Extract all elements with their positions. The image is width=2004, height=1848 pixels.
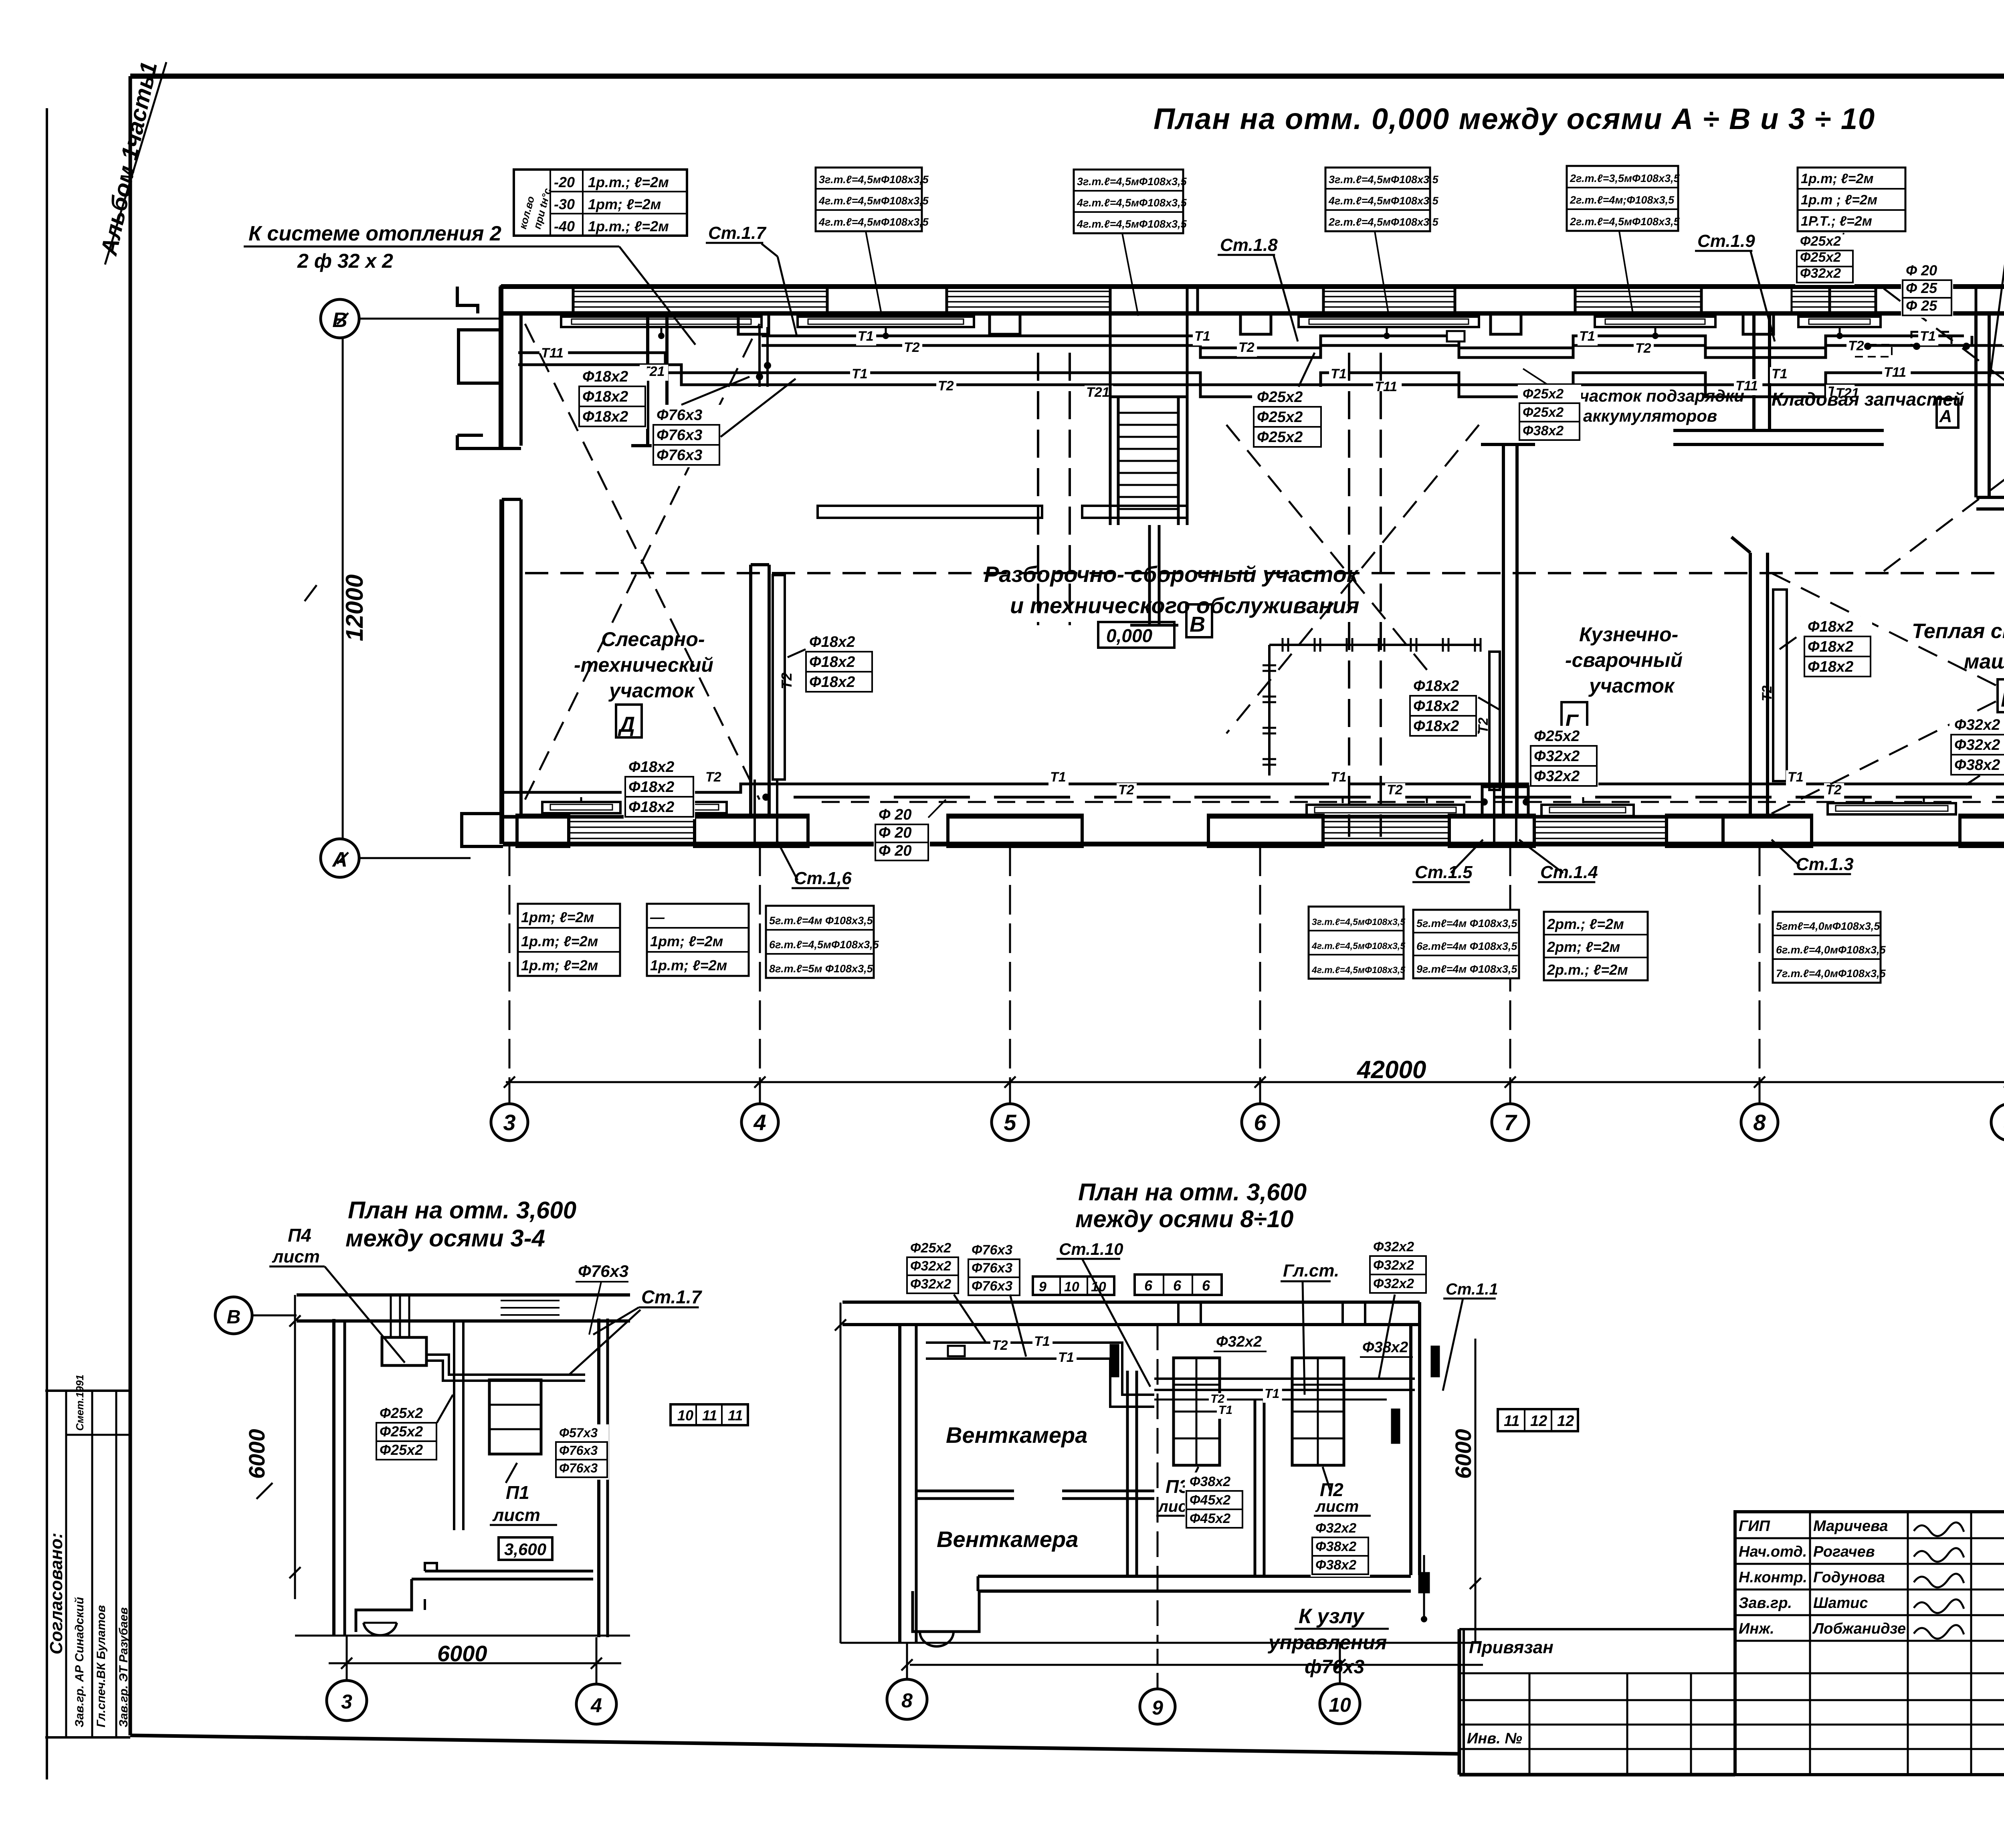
svg-text:Ст.1.7: Ст.1.7 — [641, 1287, 703, 1307]
svg-text:Т1: Т1 — [1218, 1404, 1232, 1417]
svg-text:Ф18x2: Ф18x2 — [582, 388, 628, 405]
svg-text:Кузнечно-: Кузнечно- — [1579, 623, 1678, 646]
svg-text:3г.т.ℓ=4,5мФ108x3,5: 3г.т.ℓ=4,5мФ108x3,5 — [1312, 917, 1406, 927]
svg-text:Ф76x3: Ф76x3 — [972, 1278, 1012, 1294]
svg-text:Т1: Т1 — [1265, 1386, 1279, 1401]
svg-text:5гтℓ=4,0мФ108x3,5: 5гтℓ=4,0мФ108x3,5 — [1776, 920, 1880, 932]
svg-text:Т11: Т11 — [541, 345, 564, 361]
svg-text:Т11: Т11 — [1375, 379, 1397, 394]
svg-text:Д: Д — [618, 713, 635, 737]
svg-text:6: 6 — [1254, 1110, 1267, 1135]
svg-text:2рт; ℓ=2м: 2рт; ℓ=2м — [1547, 939, 1620, 955]
svg-text:2г.т.ℓ=4м;Ф108x3,5: 2г.т.ℓ=4м;Ф108x3,5 — [1570, 194, 1675, 206]
svg-text:Ст.1,6: Ст.1,6 — [794, 868, 852, 888]
svg-text:2г.т.ℓ=4,5мФ108x3,5: 2г.т.ℓ=4,5мФ108x3,5 — [1570, 216, 1680, 228]
svg-text:1р.т; ℓ=2м: 1р.т; ℓ=2м — [1801, 171, 1874, 186]
svg-text:4: 4 — [753, 1110, 766, 1135]
svg-text:Ф25x2: Ф25x2 — [1257, 409, 1303, 426]
svg-text:Годунова: Годунова — [1813, 1569, 1885, 1586]
svg-text:Ф76x3: Ф76x3 — [559, 1461, 598, 1475]
svg-text:Ф 20: Ф 20 — [879, 824, 912, 841]
svg-text:1рт; ℓ=2м: 1рт; ℓ=2м — [588, 196, 661, 212]
svg-text:Зав.гр. ЭТ Разубаев: Зав.гр. ЭТ Разубаев — [117, 1607, 130, 1727]
svg-text:Т1: Т1 — [1194, 329, 1210, 344]
svg-text:3г.т.ℓ=4,5мФ108x3,5: 3г.т.ℓ=4,5мФ108x3,5 — [819, 174, 929, 186]
svg-text:Привязан: Привязан — [1469, 1638, 1554, 1657]
svg-text:Ф18x2: Ф18x2 — [1808, 618, 1853, 635]
svg-text:6000: 6000 — [437, 1641, 487, 1666]
svg-text:В: В — [1190, 612, 1205, 636]
svg-text:1Р.Т.; ℓ=2м: 1Р.Т.; ℓ=2м — [1801, 214, 1872, 229]
svg-text:Т11: Т11 — [1884, 365, 1906, 380]
svg-text:6000: 6000 — [244, 1429, 269, 1479]
svg-text:Ф32x2: Ф32x2 — [1315, 1521, 1356, 1536]
svg-text:П2: П2 — [1320, 1479, 1343, 1500]
svg-text:Ф 25: Ф 25 — [1906, 280, 1937, 296]
svg-text:между осями 3-4: между осями 3-4 — [345, 1225, 545, 1252]
svg-text:План на отм. 3,600: План на отм. 3,600 — [1078, 1179, 1307, 1206]
svg-text:Нач.отд.: Нач.отд. — [1739, 1543, 1807, 1560]
svg-text:5: 5 — [1004, 1110, 1016, 1135]
svg-text:Т2: Т2 — [1118, 782, 1134, 798]
svg-text:Ф25x2: Ф25x2 — [1523, 405, 1564, 420]
svg-text:9г.тℓ=4м Ф108x3,5: 9г.тℓ=4м Ф108x3,5 — [1416, 963, 1517, 975]
svg-text:Т1: Т1 — [1579, 329, 1595, 344]
svg-text:машин: машин — [1964, 650, 2004, 673]
svg-text:между осями 8÷10: между осями 8÷10 — [1075, 1206, 1293, 1232]
svg-text:Т2: Т2 — [1635, 341, 1651, 356]
svg-text:Ф38x2: Ф38x2 — [1362, 1339, 1408, 1356]
svg-text:4г.т.ℓ=4,5мФ108x3,5: 4г.т.ℓ=4,5мФ108x3,5 — [1311, 941, 1406, 951]
svg-text:План на отм. 3,600: План на отм. 3,600 — [348, 1197, 576, 1224]
svg-text:Ф25x2: Ф25x2 — [1523, 386, 1564, 402]
svg-text:11: 11 — [728, 1407, 743, 1424]
svg-text:В: В — [2001, 687, 2004, 711]
svg-text:Т2: Т2 — [1238, 340, 1255, 355]
svg-text:Ф18x2: Ф18x2 — [628, 779, 674, 796]
svg-text:4г.т.ℓ=4,5мФ108x3,5: 4г.т.ℓ=4,5мФ108x3,5 — [1328, 195, 1439, 207]
svg-text:1рт; ℓ=2м: 1рт; ℓ=2м — [650, 933, 723, 949]
svg-text:10: 10 — [1091, 1279, 1106, 1295]
svg-text:Ф32x2: Ф32x2 — [1216, 1333, 1262, 1350]
svg-text:-20: -20 — [554, 174, 575, 190]
svg-text:Ф57x3: Ф57x3 — [559, 1426, 598, 1440]
svg-text:Ф76x3: Ф76x3 — [657, 427, 702, 444]
svg-text:П4: П4 — [288, 1225, 311, 1246]
svg-text:Ф 25: Ф 25 — [1906, 297, 1937, 314]
svg-text:Ф18x2: Ф18x2 — [628, 759, 674, 776]
svg-text:лист: лист — [492, 1505, 540, 1525]
svg-text:Теплая стоянка: Теплая стоянка — [1912, 620, 2004, 643]
svg-text:П1: П1 — [506, 1482, 529, 1503]
svg-text:Ф25x2: Ф25x2 — [1534, 728, 1580, 745]
svg-text:Т2: Т2 — [1848, 338, 1864, 353]
svg-text:Ф76x3: Ф76x3 — [657, 447, 702, 464]
svg-text:ф76x3: ф76x3 — [1305, 1656, 1365, 1678]
svg-text:Зав.гр.: Зав.гр. — [1739, 1595, 1792, 1612]
svg-text:Ф25x2: Ф25x2 — [1257, 389, 1303, 406]
svg-text:3,600: 3,600 — [504, 1540, 546, 1559]
svg-text:Т1: Т1 — [1331, 769, 1347, 785]
svg-text:Ст.1.5: Ст.1.5 — [1415, 862, 1473, 882]
svg-text:Т2: Т2 — [1760, 685, 1775, 701]
svg-text:Ст.1.4: Ст.1.4 — [1540, 862, 1598, 882]
svg-text:Гл.ст.: Гл.ст. — [1283, 1261, 1339, 1280]
svg-text:Ф25x2: Ф25x2 — [910, 1240, 951, 1256]
svg-text:Ф76x3: Ф76x3 — [578, 1262, 628, 1280]
svg-text:Т2: Т2 — [992, 1338, 1008, 1353]
svg-text:Ф18x2: Ф18x2 — [1808, 658, 1853, 675]
svg-text:Т1: Т1 — [1034, 1334, 1050, 1349]
svg-text:Ф76x3: Ф76x3 — [972, 1242, 1012, 1258]
svg-text:Т2: Т2 — [938, 378, 954, 394]
svg-text:10: 10 — [677, 1407, 693, 1424]
svg-text:Ф25x2: Ф25x2 — [1800, 250, 1841, 265]
svg-text:Венткамера: Венткамера — [937, 1527, 1078, 1552]
svg-text:4: 4 — [590, 1694, 602, 1717]
svg-text:Ф18x2: Ф18x2 — [582, 408, 628, 425]
svg-text:Маричева: Маричева — [1813, 1518, 1888, 1535]
svg-text:1р.т.; ℓ=2м: 1р.т.; ℓ=2м — [588, 174, 669, 190]
svg-text:Ф25x2: Ф25x2 — [1257, 429, 1303, 446]
svg-text:-технический: -технический — [574, 654, 713, 676]
svg-text:10: 10 — [1329, 1694, 1351, 1716]
svg-text:Ст.1.1: Ст.1.1 — [1446, 1280, 1498, 1298]
svg-text:7г.т.ℓ=4,0мФ108x3,5: 7г.т.ℓ=4,0мФ108x3,5 — [1776, 967, 1886, 980]
svg-text:9: 9 — [1039, 1279, 1046, 1295]
svg-text:Т21: Т21 — [1086, 385, 1110, 400]
svg-text:Ф18x2: Ф18x2 — [809, 674, 855, 691]
svg-text:4г.т.ℓ=4,5мФ108x3,5: 4г.т.ℓ=4,5мФ108x3,5 — [1311, 965, 1406, 975]
svg-text:2г.т.ℓ=3,5мФ108x3,5: 2г.т.ℓ=3,5мФ108x3,5 — [1570, 172, 1680, 184]
svg-text:12: 12 — [1530, 1413, 1547, 1430]
svg-text:Т2: Т2 — [1387, 782, 1403, 798]
svg-text:Т2: Т2 — [705, 769, 721, 785]
svg-text:Ф25x2: Ф25x2 — [380, 1442, 423, 1458]
svg-text:Ф32x2: Ф32x2 — [1373, 1258, 1414, 1273]
svg-text:42000: 42000 — [1356, 1056, 1426, 1084]
svg-text:участок: участок — [1588, 675, 1675, 697]
svg-text:3: 3 — [503, 1110, 515, 1135]
svg-text:Н.контр.: Н.контр. — [1739, 1569, 1807, 1586]
svg-text:лист: лист — [1315, 1498, 1359, 1515]
svg-text:Ф18x2: Ф18x2 — [628, 799, 674, 816]
svg-text:Ф32x2: Ф32x2 — [1534, 768, 1580, 785]
svg-text:План на отм. 0,000 между осями: План на отм. 0,000 между осями А ÷ В и 3… — [1154, 102, 1875, 135]
svg-text:5г.тℓ=4м Ф108x3,5: 5г.тℓ=4м Ф108x3,5 — [1416, 917, 1517, 929]
svg-text:6000: 6000 — [1450, 1429, 1476, 1479]
svg-text:Ф32x2: Ф32x2 — [1800, 266, 1841, 281]
svg-text:-40: -40 — [554, 218, 575, 234]
svg-text:участок: участок — [608, 679, 695, 702]
svg-text:ГИП: ГИП — [1739, 1518, 1770, 1535]
svg-text:Ф25x2: Ф25x2 — [380, 1405, 423, 1421]
svg-text:Ст.1.7: Ст.1.7 — [708, 223, 767, 243]
svg-text:8: 8 — [901, 1689, 913, 1712]
svg-text:Инж.: Инж. — [1739, 1620, 1774, 1637]
svg-text:7: 7 — [1504, 1110, 1517, 1135]
svg-text:12: 12 — [1557, 1413, 1574, 1430]
svg-text:11: 11 — [1504, 1413, 1519, 1430]
svg-text:Ф25x2: Ф25x2 — [380, 1423, 423, 1440]
svg-text:Ф45x2: Ф45x2 — [1190, 1493, 1230, 1508]
svg-text:Ст.1.3: Ст.1.3 — [1796, 854, 1854, 874]
svg-text:4г.т.ℓ=4,5мФ108x3,5: 4г.т.ℓ=4,5мФ108x3,5 — [1077, 218, 1187, 230]
svg-text:Ф18x2: Ф18x2 — [1413, 718, 1459, 735]
svg-text:Т1: Т1 — [1920, 329, 1936, 344]
svg-text:Шатис: Шатис — [1813, 1595, 1868, 1612]
svg-text:4г.т.ℓ=4,5мФ108x3,5: 4г.т.ℓ=4,5мФ108x3,5 — [818, 195, 929, 207]
svg-text:Ф25x2: Ф25x2 — [1800, 234, 1841, 249]
svg-text:Ф76x3: Ф76x3 — [972, 1260, 1012, 1276]
svg-text:Ф32x2: Ф32x2 — [1954, 717, 2000, 733]
svg-text:0,000: 0,000 — [1106, 625, 1153, 646]
svg-text:Смет.1991: Смет.1991 — [74, 1375, 86, 1431]
svg-text:6: 6 — [1173, 1277, 1182, 1294]
svg-text:Венткамера: Венткамера — [946, 1422, 1087, 1448]
svg-text:Рогачев: Рогачев — [1813, 1543, 1875, 1560]
svg-text:4г.т.ℓ=4,5мФ108x3,5: 4г.т.ℓ=4,5мФ108x3,5 — [1077, 197, 1187, 209]
svg-text:Ф38x2: Ф38x2 — [1315, 1539, 1356, 1554]
svg-text:Участок подзарядки: Участок подзарядки — [1568, 386, 1744, 405]
svg-text:6: 6 — [1144, 1277, 1153, 1294]
svg-text:1р.т ; ℓ=2м: 1р.т ; ℓ=2м — [1801, 192, 1877, 208]
svg-text:3г.т.ℓ=4,5мФ108x3,5: 3г.т.ℓ=4,5мФ108x3,5 — [1077, 176, 1187, 188]
svg-text:Разборочно- сборочный участок: Разборочно- сборочный участок — [984, 561, 1359, 587]
svg-text:Ф18x2: Ф18x2 — [582, 368, 628, 385]
svg-text:8: 8 — [1753, 1110, 1766, 1135]
svg-text:К узлу: К узлу — [1299, 1605, 1365, 1628]
svg-text:Гл.спеч.ВК Булатов: Гл.спеч.ВК Булатов — [95, 1605, 108, 1727]
svg-text:-30: -30 — [554, 196, 575, 212]
svg-text:Т2: Т2 — [1826, 782, 1842, 798]
svg-text:Ф38x2: Ф38x2 — [1523, 423, 1564, 438]
svg-text:1р.т; ℓ=2м: 1р.т; ℓ=2м — [521, 933, 598, 949]
svg-text:2рт.; ℓ=2м: 2рт.; ℓ=2м — [1547, 916, 1624, 932]
svg-text:Т1: Т1 — [858, 329, 874, 344]
svg-text:10: 10 — [1064, 1279, 1079, 1295]
svg-text:6г.тℓ=4м Ф108x3,5: 6г.тℓ=4м Ф108x3,5 — [1416, 940, 1517, 952]
svg-text:2р.т.; ℓ=2м: 2р.т.; ℓ=2м — [1547, 961, 1628, 978]
svg-text:1рт; ℓ=2м: 1рт; ℓ=2м — [521, 909, 594, 925]
svg-text:1р.т; ℓ=2м: 1р.т; ℓ=2м — [650, 957, 727, 973]
svg-text:Ф76x3: Ф76x3 — [559, 1443, 598, 1458]
svg-text:Согласовано:: Согласовано: — [46, 1533, 66, 1654]
svg-text:и технического обслуживания: и технического обслуживания — [1010, 593, 1360, 618]
svg-text:12000: 12000 — [341, 574, 368, 641]
svg-text:К системе отопления 2: К системе отопления 2 — [248, 222, 501, 245]
svg-text:Ф38x2: Ф38x2 — [1954, 757, 2000, 774]
svg-text:Ф32x2: Ф32x2 — [910, 1276, 951, 1292]
svg-text:Зав.гр. АР Синадский: Зав.гр. АР Синадский — [73, 1597, 86, 1727]
svg-text:Ф45x2: Ф45x2 — [1190, 1511, 1230, 1526]
svg-text:аккумуляторов: аккумуляторов — [1583, 406, 1717, 425]
svg-text:Ф76x3: Ф76x3 — [657, 407, 702, 424]
svg-text:А: А — [331, 848, 347, 871]
svg-text:Ф 20: Ф 20 — [1906, 262, 1937, 279]
svg-text:1р.т; ℓ=2м: 1р.т; ℓ=2м — [521, 957, 598, 973]
svg-text:Т1: Т1 — [1788, 769, 1804, 785]
svg-text:Ст.1.10: Ст.1.10 — [1059, 1240, 1123, 1258]
svg-text:6г.т.ℓ=4,5мФ108x3,5: 6г.т.ℓ=4,5мФ108x3,5 — [769, 939, 879, 951]
svg-text:Т2: Т2 — [778, 673, 795, 689]
svg-text:Лобжанидзе: Лобжанидзе — [1812, 1620, 1906, 1637]
svg-text:Ф18x2: Ф18x2 — [1808, 638, 1853, 655]
svg-text:Ф18x2: Ф18x2 — [1413, 678, 1459, 695]
svg-text:Т1: Т1 — [1772, 366, 1788, 382]
svg-text:Ф 20: Ф 20 — [879, 806, 912, 823]
svg-text:Ф 20: Ф 20 — [879, 842, 912, 859]
svg-text:Ф32x2: Ф32x2 — [1373, 1276, 1414, 1291]
svg-text:Т1: Т1 — [1050, 769, 1066, 785]
svg-text:8г.т.ℓ=5м Ф108x3,5: 8г.т.ℓ=5м Ф108x3,5 — [769, 963, 873, 975]
svg-text:Т1: Т1 — [852, 366, 868, 382]
svg-text:Ф18x2: Ф18x2 — [809, 634, 855, 650]
svg-text:Слесарно-: Слесарно- — [601, 628, 705, 650]
svg-text:3: 3 — [341, 1690, 352, 1713]
svg-text:2г.т.ℓ=4,5мФ108x3,5: 2г.т.ℓ=4,5мФ108x3,5 — [1328, 216, 1439, 228]
svg-text:Т2: Т2 — [904, 340, 920, 355]
svg-text:Ф32x2: Ф32x2 — [1534, 748, 1580, 765]
svg-text:4г.т.ℓ=4,5мФ108x3,5: 4г.т.ℓ=4,5мФ108x3,5 — [818, 216, 929, 228]
svg-text:В: В — [227, 1307, 241, 1328]
svg-text:Ф32x2: Ф32x2 — [910, 1258, 951, 1274]
svg-text:Ст.1.9: Ст.1.9 — [1697, 231, 1755, 251]
svg-text:-сварочный: -сварочный — [1565, 649, 1683, 671]
svg-text:Ф38x2: Ф38x2 — [1315, 1557, 1356, 1573]
svg-text:5г.т.ℓ=4м Ф108x3,5: 5г.т.ℓ=4м Ф108x3,5 — [769, 915, 873, 927]
svg-text:3г.т.ℓ=4,5мФ108x3,5: 3г.т.ℓ=4,5мФ108x3,5 — [1329, 174, 1439, 186]
svg-text:Ф18x2: Ф18x2 — [809, 654, 855, 671]
svg-text:11: 11 — [702, 1407, 717, 1424]
svg-text:—: — — [650, 909, 665, 925]
svg-text:Т1: Т1 — [1058, 1350, 1074, 1365]
svg-text:Инв. №: Инв. № — [1467, 1730, 1522, 1747]
svg-text:Ф32x2: Ф32x2 — [1373, 1239, 1414, 1254]
svg-text:Ф38x2: Ф38x2 — [1190, 1474, 1230, 1489]
svg-text:Т1: Т1 — [1331, 366, 1347, 382]
svg-text:9: 9 — [1152, 1697, 1163, 1719]
svg-text:лист: лист — [272, 1247, 320, 1266]
svg-text:6г.т.ℓ=4,0мФ108x3,5: 6г.т.ℓ=4,0мФ108x3,5 — [1776, 944, 1886, 956]
svg-text:2 ф 32 x 2: 2 ф 32 x 2 — [297, 250, 393, 272]
svg-text:Ф18x2: Ф18x2 — [1413, 698, 1459, 715]
svg-text:Ф32x2: Ф32x2 — [1954, 737, 2000, 753]
svg-text:6: 6 — [1202, 1277, 1210, 1294]
svg-text:1р.т.; ℓ=2м: 1р.т.; ℓ=2м — [588, 218, 669, 234]
svg-text:Ст.1.8: Ст.1.8 — [1220, 235, 1278, 255]
svg-text:Кладовая запчастей: Кладовая запчастей — [1772, 389, 1964, 410]
